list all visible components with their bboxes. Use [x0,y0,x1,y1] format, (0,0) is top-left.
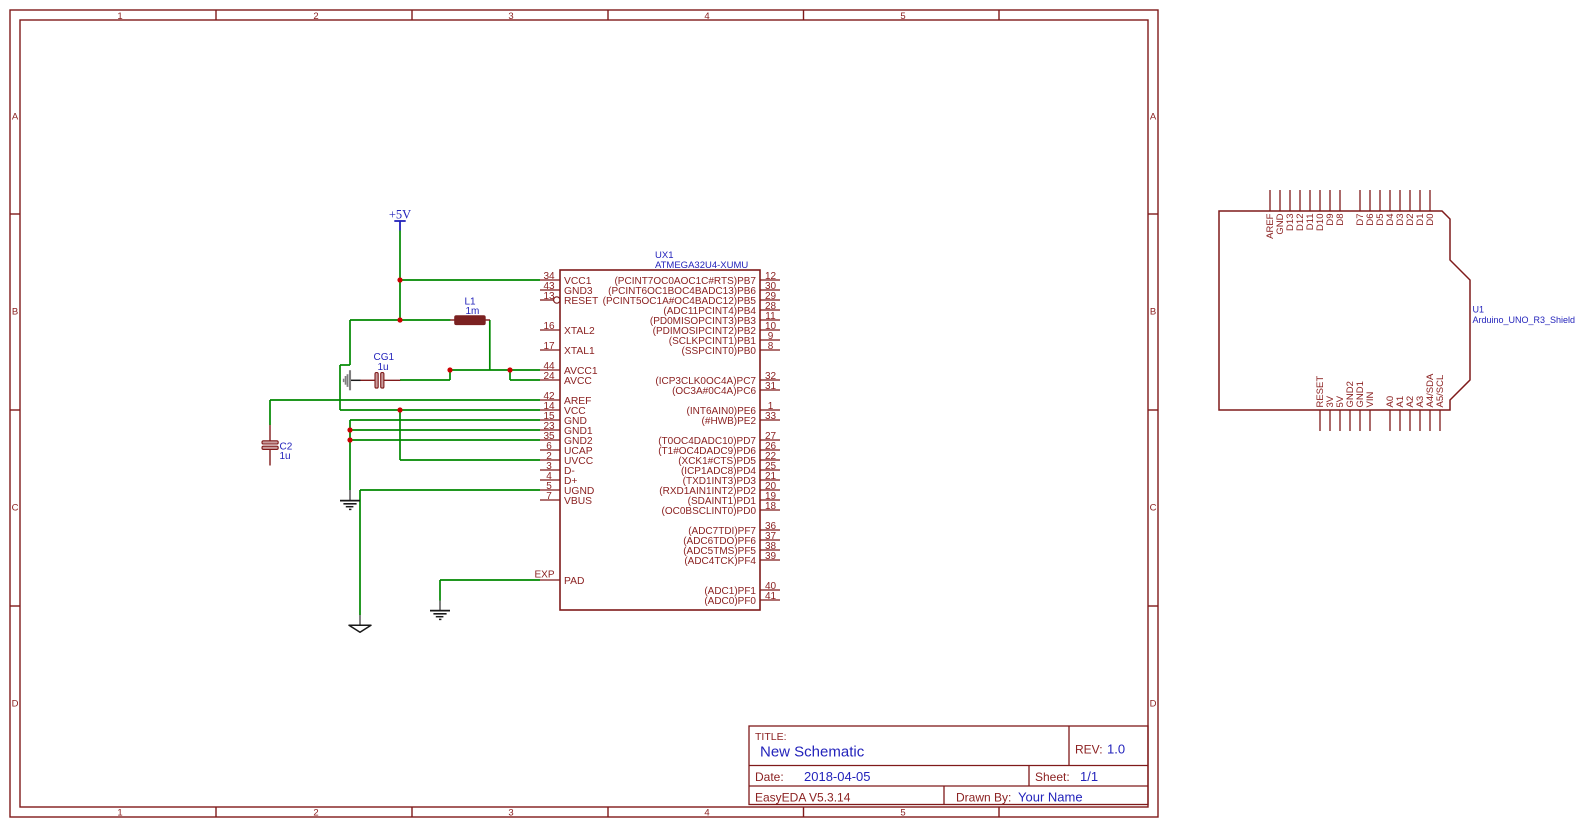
UX1 pin 40 (ADC1)PF1 (right) [704,581,780,597]
svg-text:1m: 1m [466,306,480,317]
svg-text:D: D [1150,699,1157,710]
svg-text:New Schematic: New Schematic [760,744,865,761]
U1 pin D3 (top) [1395,190,1406,226]
UX1 pin 10 (PDIMOSIPCINT2)PB2 (right) [653,321,780,337]
wire +5V rail mid [399,280,401,320]
U1 pin 5V (bottom) [1335,395,1346,431]
UX1 pin 39 (ADC4TCK)PF4 (right) [684,551,780,567]
UX1 pin 42 AREF (left) [540,391,591,407]
UX1 pin 17 XTAL1 (left) [540,341,595,357]
svg-text:(SSPCINT0)PB0: (SSPCINT0)PB0 [682,346,757,357]
UX1 pin 11 (PD0MISOPCINT3)PB3 (right) [650,311,780,327]
svg-text:13: 13 [543,291,555,302]
svg-text:VBUS: VBUS [564,496,592,507]
wire AVCC pin24 stub [510,379,540,381]
UX1 pin 1 (INT6AIN0)PE6 (right) [687,401,780,417]
CG1 labels [374,352,395,373]
wire AVCC drop x510 [509,370,511,380]
U1 pin GND2 (bottom) [1345,381,1356,431]
svg-text:3: 3 [508,808,513,819]
svg-text:(OC0BSCLINT0)PD0: (OC0BSCLINT0)PD0 [662,506,757,517]
svg-text:41: 41 [765,591,777,602]
UX1 pin 14 VCC (left) [540,401,586,417]
svg-text:REV:: REV: [1075,743,1103,757]
svg-text:+5V: +5V [389,208,411,222]
U1 pin D12 (top) [1295,190,1306,231]
U1 reference designator labels [1473,305,1576,326]
UX1 pin 9 (SCLKPCINT1)PB1 (right) [669,331,780,347]
svg-text:5: 5 [900,808,905,819]
U1 pin GND1 (bottom) [1355,381,1366,431]
wire CG1 right riser [449,370,451,380]
svg-text:Sheet:: Sheet: [1035,770,1070,784]
UX1 pin 37 (ADC6TDO)PF6 (right) [683,531,780,547]
U1 pin D8 (top) [1335,190,1346,226]
svg-text:4: 4 [704,11,709,22]
UX1 pin 16 XTAL2 (left) [540,321,595,337]
wire AVCC1 pin44 row [450,369,540,371]
U1 pin D0 (top) [1425,190,1436,226]
UX1 pin 3 D- (left) [540,461,575,477]
U1 pin D10 (top) [1315,190,1326,231]
svg-text:2018-04-05: 2018-04-05 [804,769,871,784]
UX1 pin 4 D+ (left) [540,471,577,487]
U1 pin GND (top) [1275,190,1286,235]
wire +5V to VCC1 pin34 [400,279,540,281]
svg-text:33: 33 [765,411,777,422]
capacitor CG1 1u [361,373,401,389]
UX1 pin 7 VBUS (left) [540,491,592,507]
svg-text:5: 5 [900,11,905,22]
U1 pin A5/SCL (bottom) [1435,375,1446,431]
svg-text:Arduino_UNO_R3_Shield: Arduino_UNO_R3_Shield [1473,315,1576,325]
wire +5V rail upper [399,231,401,281]
U1 pin D6 (top) [1365,190,1376,226]
svg-text:D: D [12,699,19,710]
svg-text:ATMEGA32U4-XUMU: ATMEGA32U4-XUMU [655,260,748,271]
wire L1 right drop [489,320,491,370]
U1 pin A4/SDA (bottom) [1425,373,1436,431]
svg-text:1: 1 [117,808,122,819]
UX1 pin 30 (PCINT6OC1BOC4BADC13)PB6 (right) [608,281,780,297]
UX1 pin 25 (ICP1ADC8)PD4 (right) [681,461,780,477]
svg-text:A5/SCL: A5/SCL [1435,375,1446,408]
UX1 pin 8 (SSPCINT0)PB0 (right) [682,341,780,357]
power symbol +5V [389,208,411,231]
frame row letters left [12,112,19,710]
U1 pin RESET (bottom) [1315,376,1326,431]
U1 pin D1 (top) [1415,190,1426,226]
svg-text:XTAL2: XTAL2 [564,326,595,337]
U1 pin D9 (top) [1325,190,1336,226]
IC UX1 reference designator label [655,250,748,271]
wire AREF pin42 row [270,399,540,401]
wire jog y365 [340,364,350,366]
svg-text:(#HWB)PE2: (#HWB)PE2 [702,416,757,427]
UX1 pin 12 (PCINT7OC0AOC1C#RTS)PB7 (right) [614,271,780,287]
UX1 pin 28 (ADC11PCINT4)PB4 (right) [663,301,780,317]
UX1 pin 18 (OC0BSCLINT0)PD0 (right) [662,501,780,517]
wire +5V to L1 left [400,319,450,321]
wire PAD drop x440 [439,580,441,601]
UX1 pin EXP PAD (left) [540,576,584,587]
UX1 pin 27 (T0OC4DADC10)PD7 (right) [658,431,780,447]
UX1 pin 26 (T1#OC4DADC9)PD6 (right) [658,441,780,457]
UX1 pin 19 (SDAINT1)PD1 (right) [688,491,780,507]
wire GND pin15 row [350,419,540,421]
U1 pin D11 (top) [1305,190,1316,230]
UX1 pin 21 (TXD1INT3)PD3 (right) [683,471,780,487]
title block texts [755,731,1125,805]
capacitor C2 1u [262,425,278,466]
junction node (400,280) [397,277,402,282]
UX1 pin 35 GND2 (left) [540,431,593,447]
svg-text:(ADC4TCK)PF4: (ADC4TCK)PF4 [684,556,756,567]
svg-text:(OC3A#0C4A)PC6: (OC3A#0C4A)PC6 [672,386,756,397]
svg-text:8: 8 [768,341,774,352]
svg-text:A: A [1150,112,1157,123]
U1 pin D13 (top) [1285,190,1296,231]
U1 pin A2 (bottom) [1405,396,1416,431]
wire left drop x340 [339,365,341,410]
svg-text:1.0: 1.0 [1107,742,1125,757]
svg-text:39: 39 [765,551,777,562]
UX1 pin 41 (ADC0)PF0 (right) [704,591,780,607]
U1 pin VIN (bottom) [1365,392,1376,431]
inductor L1 1m [450,316,490,325]
wire UVCC pin2 row [400,459,540,461]
svg-text:2: 2 [313,808,318,819]
L1 labels [465,297,480,318]
ground (rotated, at CG1 left) [344,370,361,390]
svg-text:A: A [12,112,19,123]
wire UGND drop x360 [359,490,361,615]
svg-text:1/1: 1/1 [1080,769,1098,784]
UX1 pin 34 VCC1 (left) [540,271,592,287]
UX1 pin 36 (ADC7TDI)PF7 (right) [688,521,780,537]
C2 labels [280,442,293,463]
wire UGND pin5 row [360,489,540,491]
UX1 pin 31 (OC3A#0C4A)PC6 (right) [672,381,780,397]
svg-text:7: 7 [546,491,552,502]
wire left drop x350 [349,320,351,365]
svg-text:1: 1 [117,11,122,22]
IC UX1 ATMEGA32U4-XUMU body [560,270,760,610]
UX1 pin 22 (XCK1#CTS)PD5 (right) [678,451,780,467]
svg-text:17: 17 [543,341,555,352]
svg-text:C: C [1150,503,1157,514]
svg-text:VIN: VIN [1365,392,1376,408]
wire PAD EXP row [440,579,540,581]
UX1 pin 15 GND (left) [540,411,587,427]
sheet border frame [10,10,1158,817]
frame column numbers bottom [117,808,905,819]
junction node (400,320) [397,317,402,322]
svg-text:(ADC0)PF0: (ADC0)PF0 [704,596,756,607]
junction node (350,440) [347,437,352,442]
wire GND2 pin35 row [350,439,540,441]
U1 pin A1 (bottom) [1395,396,1406,431]
UX1 pin 20 (RXD1AIN1INT2)PD2 (right) [659,481,780,497]
svg-text:TITLE:: TITLE: [755,731,787,743]
frame column numbers top [117,11,905,22]
svg-text:AVCC: AVCC [564,376,592,387]
UX1 pin 29 (PCINT5OC1A#OC4BADC12)PB5 (right) [603,291,780,307]
UX1 pin 24 AVCC (left) [540,371,592,387]
U1 pin AREF (top) [1265,190,1276,239]
ground (PAD/EXP, x440) [430,601,450,620]
UX1 pin 2 UVCC (left) [540,451,594,467]
svg-text:EasyEDA V5.3.14: EasyEDA V5.3.14 [755,791,851,805]
junction node (400,410) [397,407,402,412]
UX1 pin 43 GND3 (left) [540,281,593,297]
U1 pin D7 (top) [1355,190,1366,226]
U1 pin D5 (top) [1375,190,1386,226]
svg-text:PAD: PAD [564,576,584,587]
wire AREF drop to C2 [269,400,271,425]
U1 pin D4 (top) [1385,190,1396,226]
svg-text:1u: 1u [280,451,291,462]
U1 pin 3V (bottom) [1325,395,1336,431]
svg-text:24: 24 [543,371,555,382]
earth ground (UGND, x360) [349,615,371,632]
svg-text:4: 4 [704,808,709,819]
svg-text:2: 2 [313,11,318,22]
svg-text:Your Name: Your Name [1018,790,1083,805]
svg-text:B: B [12,307,18,318]
svg-text:D0: D0 [1425,214,1436,226]
UX1 pin 44 AVCC1 (left) [540,361,598,377]
junction node (510,370) [507,367,512,372]
svg-text:C: C [12,503,19,514]
svg-text:31: 31 [765,381,777,392]
UX1 pin 32 (ICP3CLK0OC4A)PC7 (right) [655,371,780,387]
svg-text:B: B [1150,307,1156,318]
svg-text:1u: 1u [378,362,389,373]
wire VCC pin14 row [340,409,540,411]
svg-text:16: 16 [543,321,555,332]
junction node (450,370) [447,367,452,372]
wire GND1 pin23 row [350,429,540,431]
junction node (350,430) [347,427,352,432]
U1 pin A0 (bottom) [1385,396,1396,431]
ground (GND bus, x350) [340,490,360,509]
svg-text:Date:: Date: [755,770,784,784]
svg-text:18: 18 [765,501,777,512]
U1 pin A3 (bottom) [1415,396,1426,431]
wire +5V rail lower [399,410,401,460]
UX1 pin 5 UGND (left) [540,481,594,497]
U1 pin D2 (top) [1405,190,1416,226]
svg-text:XTAL1: XTAL1 [564,346,595,357]
svg-text:U1: U1 [1473,305,1485,315]
UX1 pin 38 (ADC5TMS)PF5 (right) [683,541,780,557]
frame row letters right [1150,112,1157,710]
Arduino shield U1 body [1219,211,1470,410]
UX1 pin 13 RESET (left) [540,291,599,307]
UX1 pin 33 (#HWB)PE2 (right) [702,411,780,427]
wire GND bus drop x350 [349,420,351,490]
svg-text:RESET: RESET [564,296,599,307]
svg-text:EXP: EXP [534,570,554,581]
svg-text:Drawn By:: Drawn By: [956,791,1011,805]
UX1 pin 23 GND1 (left) [540,421,593,437]
svg-text:3: 3 [508,11,513,22]
wire branch left at y320 [350,319,400,321]
UX1 pin 6 UCAP (left) [540,441,593,457]
svg-text:D8: D8 [1335,214,1346,226]
title block [749,726,1148,805]
wire CG1 right lead wire [400,379,450,381]
